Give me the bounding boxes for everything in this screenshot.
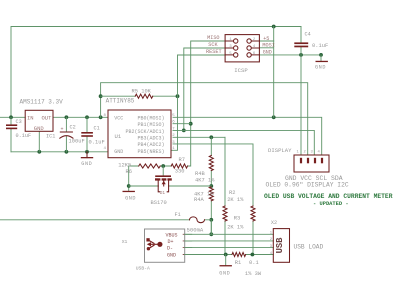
- wire D- row: [185, 247, 274, 249]
- svg-text:PB4(ADC2): PB4(ADC2): [137, 142, 164, 148]
- svg-text:USB LOAD: USB LOAD: [294, 244, 324, 251]
- svg-text:1% 3W: 1% 3W: [245, 271, 262, 277]
- node gate junction: [161, 164, 165, 168]
- wire R3 column: [224, 137, 226, 254]
- wire VCC riser to display feed: [101, 83, 308, 155]
- pin numbers right side: [172, 114, 175, 151]
- resistor R2: [227, 190, 255, 221]
- svg-text:+5: +5: [263, 36, 269, 42]
- svg-text:100uF: 100uF: [69, 138, 85, 144]
- svg-text:PB0(MOSI): PB0(MOSI): [137, 115, 164, 121]
- resistor R4B: [195, 156, 215, 184]
- node source junction: [127, 184, 131, 188]
- wire MISO vertical and gate drive: [188, 41, 226, 166]
- node GND rail junctions: [37, 150, 41, 154]
- wire PB1 row: [173, 123, 191, 125]
- wire R5 leads: [101, 95, 178, 97]
- svg-text:MISO: MISO: [207, 35, 219, 41]
- svg-text:0.1uF: 0.1uF: [312, 43, 328, 49]
- wire C4 column and display GND: [300, 27, 302, 156]
- svg-text:2K 1%: 2K 1%: [227, 197, 244, 203]
- svg-text:GND: GND: [167, 253, 176, 259]
- node MOSI/PB0 junction: [272, 115, 276, 119]
- svg-text:0.1uF: 0.1uF: [89, 139, 105, 145]
- svg-text:GND: GND: [81, 161, 92, 167]
- wire IC1 GND pin column: [38, 131, 40, 151]
- wire X1 pin stubs: [185, 234, 192, 254]
- svg-text:OLED USB VOLTAGE AND CURRENT M: OLED USB VOLTAGE AND CURRENT METER: [264, 193, 393, 200]
- wire C1 column: [86, 117, 88, 152]
- svg-text:VCC: VCC: [114, 115, 123, 121]
- svg-text:D1: D1: [160, 191, 166, 196]
- svg-text:F1: F1: [175, 212, 181, 218]
- svg-text:OLED 0.96" DISPLAY I2C: OLED 0.96" DISPLAY I2C: [266, 182, 349, 189]
- node SCK/PB2 junction: [182, 129, 186, 133]
- wire R2 lower lead: [252, 221, 254, 255]
- svg-text:USB: USB: [275, 237, 285, 254]
- wire top +5V rail: [11, 27, 301, 118]
- fuse F1: [175, 212, 205, 233]
- node top rail junction: [272, 25, 276, 29]
- svg-text:U1: U1: [115, 133, 122, 140]
- node VBUS junction: [209, 232, 213, 236]
- wire PB2 SCL row: [173, 130, 314, 155]
- svg-text:R4B: R4B: [195, 171, 205, 177]
- svg-text:ICSP: ICSP: [234, 67, 248, 74]
- svg-text:IN: IN: [27, 115, 34, 122]
- node R5 tap: [99, 94, 103, 98]
- node VIN/C3 junction: [9, 115, 13, 119]
- svg-text:C3: C3: [16, 119, 22, 125]
- capacitor C3: [6, 119, 31, 139]
- svg-text:ATTINY85: ATTINY85: [106, 98, 135, 105]
- svg-text:AMS1117 3.3V: AMS1117 3.3V: [20, 98, 64, 105]
- wire shunt row: [185, 254, 274, 256]
- wire RESET vertical: [171, 55, 225, 150]
- svg-text:D-: D-: [167, 246, 173, 252]
- svg-text:0.1: 0.1: [249, 260, 259, 266]
- svg-text:PB1(MISO): PB1(MISO): [137, 122, 164, 128]
- svg-text:R1: R1: [235, 260, 241, 266]
- svg-text:GND: GND: [315, 64, 326, 70]
- svg-text:X2: X2: [271, 220, 277, 226]
- wire PB3 ADC3 row: [173, 136, 225, 138]
- pin numbers X2: [270, 232, 273, 256]
- svg-text:+: +: [61, 126, 64, 132]
- wire D+ row: [185, 240, 274, 242]
- svg-text:DISPLAY: DISPLAY: [268, 147, 292, 154]
- ground symbol below R6: [123, 191, 137, 202]
- svg-text:OUT: OUT: [42, 115, 53, 122]
- resistor R1 shunt: [232, 252, 262, 277]
- wire R4B column: [210, 137, 212, 186]
- svg-text:4K7 1%: 4K7 1%: [195, 178, 215, 184]
- wire FET drain row: [169, 185, 212, 187]
- wire GND rail bottom left: [11, 151, 108, 153]
- wire 3V3 rail IC1 OUT to U1 VCC: [53, 116, 108, 118]
- svg-text:RESET: RESET: [206, 49, 222, 55]
- node C4 GND junction: [299, 53, 303, 57]
- node divider mid junction: [209, 184, 213, 188]
- svg-text:SCK: SCK: [208, 42, 218, 48]
- svg-text:R2: R2: [229, 190, 235, 196]
- mcu U1 ATTINY85 body: [108, 110, 171, 158]
- resistor R6: [118, 162, 160, 175]
- wire gate stub down: [162, 166, 164, 175]
- svg-text:D+: D+: [167, 239, 173, 245]
- wire C2 column: [65, 117, 67, 152]
- svg-text:PB2(SCK/ADC1): PB2(SCK/ADC1): [125, 129, 164, 135]
- svg-text:PB3(ADC3): PB3(ADC3): [137, 136, 164, 142]
- svg-text:C2: C2: [70, 125, 76, 131]
- node fuse junction: [209, 218, 213, 222]
- svg-text:R7: R7: [179, 157, 185, 163]
- wire gate row R6 lead: [129, 165, 172, 167]
- wire GND drop at shunt: [225, 255, 227, 266]
- node MISO/PB1 junction: [189, 122, 193, 126]
- resistor R7: [171, 157, 187, 175]
- pin ticks X1: [183, 234, 185, 254]
- svg-text:GND: GND: [34, 125, 45, 132]
- svg-text:GND: GND: [114, 149, 123, 155]
- wire ICSP GND row: [259, 54, 321, 56]
- svg-text:2K 1%: 2K 1%: [227, 225, 244, 231]
- ground symbol below C1: [81, 152, 93, 167]
- svg-text:X1: X1: [122, 239, 128, 245]
- wire GND stub right: [320, 55, 322, 61]
- capacitor C4: [294, 32, 328, 49]
- wire SCK vertical: [184, 48, 225, 130]
- svg-text:GND: GND: [125, 195, 136, 201]
- svg-text:GND: GND: [263, 49, 272, 55]
- node GND stub junction: [319, 53, 323, 57]
- wire PB0 SDA row: [173, 117, 322, 155]
- node 3V3 rail junctions: [65, 115, 69, 119]
- svg-text:R6: R6: [126, 169, 132, 175]
- wire VIN row to IC1 IN: [0, 116, 25, 118]
- svg-text:R4A: R4A: [194, 197, 204, 203]
- pin numbers DISPLAY: [297, 151, 321, 155]
- node R5/RESET junction: [176, 94, 180, 98]
- svg-text:MOSI: MOSI: [262, 43, 274, 49]
- svg-text:GND: GND: [219, 271, 230, 277]
- wire VBUS row to X2: [185, 233, 274, 235]
- svg-text:BS170: BS170: [151, 200, 167, 206]
- wire FET source row: [129, 185, 159, 187]
- resistor R5: [132, 89, 153, 99]
- connector X2 USB LOAD body: [273, 229, 289, 263]
- node ADC3/R4B junction: [209, 135, 213, 139]
- wire R6 gnd column: [128, 166, 130, 191]
- wire ICSP MOSI vertical: [259, 41, 273, 117]
- ground symbol near C4: [315, 61, 328, 71]
- resistor R3: [223, 206, 244, 231]
- svg-text:500mA: 500mA: [187, 227, 204, 234]
- wire PB4 ADC2 row: [173, 144, 253, 206]
- connector X1 USB-A body: [145, 229, 185, 262]
- transistor Q1 BS170: [155, 175, 172, 195]
- svg-text:R3: R3: [234, 215, 240, 221]
- connector DISPLAY body: [294, 155, 329, 172]
- capacitor C1: [81, 125, 104, 145]
- svg-text:R5 10K: R5 10K: [132, 89, 152, 95]
- svg-text:PB5(NRES): PB5(NRES): [137, 149, 164, 155]
- wire VBUS input row with F1: [0, 220, 211, 235]
- capacitor C2 polarized: [60, 125, 85, 145]
- svg-text:0.1uF: 0.1uF: [16, 133, 32, 139]
- connector ICSP body: [225, 35, 259, 62]
- resistor R4A: [194, 187, 214, 203]
- svg-text:330: 330: [175, 168, 185, 174]
- wire R4A column: [210, 186, 212, 234]
- node shunt left junction: [224, 253, 228, 257]
- regulator IC1 body: [25, 110, 53, 132]
- wire C3 column: [10, 117, 12, 152]
- node shunt right junction: [251, 253, 255, 257]
- pin numbers ICSP: [229, 38, 256, 56]
- svg-text:- UPDATED -: - UPDATED -: [313, 201, 349, 207]
- wire ICSP +5 link: [259, 27, 273, 42]
- svg-text:VBUS: VBUS: [165, 232, 177, 238]
- svg-text:USB-A: USB-A: [136, 265, 150, 271]
- svg-text:C1: C1: [94, 125, 100, 131]
- svg-text:C4: C4: [305, 32, 311, 38]
- svg-text:IC1: IC1: [46, 133, 55, 139]
- svg-text:12K5: 12K5: [118, 162, 131, 168]
- ground symbol below shunt: [219, 265, 232, 277]
